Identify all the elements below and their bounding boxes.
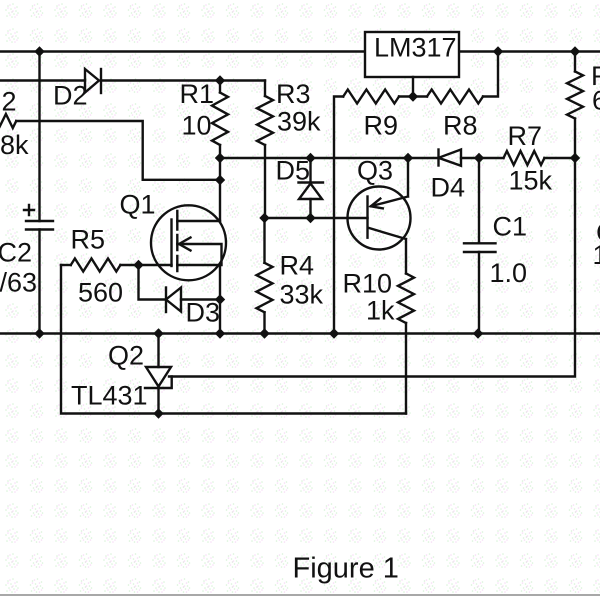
- svg-text:68k: 68k: [592, 86, 600, 116]
- svg-text:LM317: LM317: [374, 33, 457, 63]
- svg-text:2: 2: [2, 87, 17, 117]
- svg-text:R7: R7: [508, 121, 543, 151]
- svg-text:Q2: Q2: [108, 341, 144, 371]
- svg-text:D5: D5: [276, 156, 311, 186]
- svg-text:R4: R4: [280, 251, 315, 281]
- svg-text:TL431: TL431: [71, 381, 148, 411]
- svg-text:10: 10: [593, 240, 600, 270]
- svg-text:C1: C1: [493, 212, 528, 242]
- svg-text:Q1: Q1: [120, 190, 156, 220]
- svg-text:1.0: 1.0: [490, 258, 528, 288]
- svg-text:1k: 1k: [366, 296, 395, 326]
- svg-text:C2: C2: [0, 238, 32, 268]
- svg-text:R10: R10: [343, 269, 393, 299]
- svg-text:0/63: 0/63: [0, 268, 37, 298]
- svg-text:R9: R9: [364, 111, 399, 141]
- svg-text:8k: 8k: [0, 130, 29, 160]
- svg-text:D4: D4: [431, 173, 466, 203]
- svg-text:R8: R8: [443, 111, 478, 141]
- svg-text:D2: D2: [53, 81, 88, 111]
- svg-text:R1: R1: [180, 79, 215, 109]
- svg-text:39k: 39k: [277, 107, 321, 137]
- svg-text:R5: R5: [71, 225, 106, 255]
- svg-text:15k: 15k: [509, 166, 553, 196]
- svg-text:Figure 1: Figure 1: [293, 553, 399, 585]
- svg-text:D3: D3: [186, 298, 221, 328]
- svg-text:10: 10: [182, 111, 212, 141]
- svg-text:Q3: Q3: [357, 156, 393, 186]
- svg-text:R3: R3: [276, 79, 311, 109]
- svg-text:560: 560: [78, 278, 123, 308]
- svg-text:33k: 33k: [280, 280, 324, 310]
